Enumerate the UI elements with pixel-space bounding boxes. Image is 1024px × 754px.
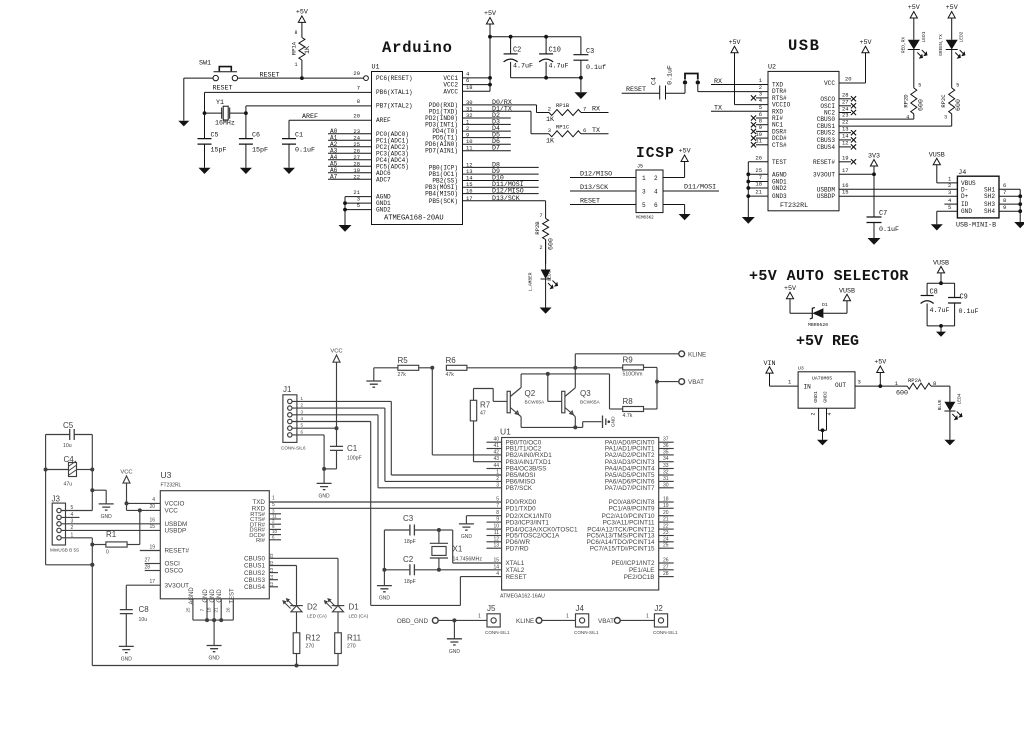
junction R5/R6 to U1 PB2 [430,366,501,455]
svg-text:15: 15 [842,189,849,196]
wire U2 CBUS1 to RP2C [839,119,952,127]
svg-text:LED2: LED2 [959,31,965,42]
svg-text:9: 9 [1003,204,1006,211]
svg-text:PB5(SCK): PB5(SCK) [429,198,458,205]
svg-text:1: 1 [566,614,569,620]
svg-text:10u: 10u [63,443,72,449]
svg-text:AREF: AREF [302,113,318,121]
wire OBD_GND to ground [453,620,455,638]
svg-text:PB6(XTAL1): PB6(XTAL1) [376,89,413,96]
power VIN [763,360,798,386]
U2 right pin labels [813,80,835,200]
wire U3 RESET# stub [140,550,161,552]
jumper pads (reset jumper) [666,74,701,94]
svg-text:RX: RX [714,78,722,86]
U1 left pin numbers [493,437,499,577]
wire +5V cap rail top [490,35,581,39]
svg-text:LED1: LED1 [921,31,927,42]
svg-text:CBUS4: CBUS4 [817,144,836,151]
svg-text:1K: 1K [546,137,554,145]
capacitor C3 18pF [384,514,441,545]
wire RX to U2 TXD [711,77,768,86]
wires U2 TEST/AGND/GND to ground [746,154,768,217]
power +5V (U1 VCC rail) [484,10,496,91]
wire R8 to Q2 collector rail [610,374,623,409]
wire ICSP pin6 to ground [663,205,685,215]
svg-text:J4: J4 [576,604,585,613]
wire R7 top to Q2 base [474,389,508,402]
svg-text:2: 2 [496,476,499,482]
wire U1 PD2 to ground [466,516,501,524]
power +5V (regulator out) [874,359,886,387]
svg-text:D+: D+ [961,193,969,200]
svg-text:VCC: VCC [120,469,132,475]
led LED2 GREEN,TX [938,31,965,88]
svg-text:VCC: VCC [165,508,179,515]
svg-text:270: 270 [347,643,356,649]
svg-text:RESET#: RESET# [165,548,190,555]
svg-text:26: 26 [663,558,669,564]
svg-text:GND3: GND3 [772,193,787,200]
svg-text:16MHz: 16MHz [215,120,235,127]
svg-text:1: 1 [642,175,646,182]
svg-text:28: 28 [842,92,849,99]
wire U3 OSCI stub [145,563,161,565]
svg-text:2: 2 [654,175,658,182]
power VCC (J1) [330,349,342,447]
resistor R5 27k [374,356,433,378]
svg-text:TEST: TEST [772,159,787,166]
svg-text:RED,RX: RED,RX [900,37,906,54]
svg-text:15pF: 15pF [211,147,227,155]
ground (J4 shield) [1014,222,1024,228]
wire XTAL1 (U1 pin7) [203,85,372,139]
svg-text:RESET#: RESET# [813,159,835,166]
svg-text:R1: R1 [106,530,117,539]
ground (crystal) [377,586,392,592]
U1 right pin labels [587,439,655,580]
wire D12/MISO to ICSP pin1 [570,171,636,179]
svg-text:AGND: AGND [772,171,787,178]
svg-text:CBUS0: CBUS0 [817,116,836,123]
svg-text:CONN-SIL1: CONN-SIL1 [574,630,599,635]
svg-text:15pF: 15pF [252,147,268,155]
svg-text:VCCIO: VCCIO [165,501,185,508]
svg-text:1: 1 [646,614,649,620]
wire U3 3V3OUT to C8 [126,585,160,609]
capacitor C3 0.1uF [573,37,606,78]
diode D1 MBR0520 [808,302,828,328]
led LED3 L_AMBER [528,240,558,308]
J4 pin numbers left [948,182,952,211]
wire J4 ID stub [944,203,957,205]
svg-text:BLUE: BLUE [937,399,943,410]
svg-text:25: 25 [755,167,762,174]
svg-text:19: 19 [663,503,669,509]
svg-text:Arduino: Arduino [382,39,453,57]
crystal X1 14.7456MHz [430,530,483,570]
wire RESET net to U1 pin29 [238,70,369,81]
wire U3 CBUS1 to D2 [269,560,297,605]
svg-text:LED3: LED3 [547,270,553,281]
wire J1 pin3 to U1 PB7 [292,415,502,488]
svg-text:28: 28 [144,565,150,571]
svg-text:PB7(XTAL2): PB7(XTAL2) [376,102,413,109]
svg-text:+5V REG: +5V REG [796,333,859,350]
wire left rail (J3 section) [44,435,95,567]
svg-text:19: 19 [149,545,155,551]
svg-text:OSCO: OSCO [165,568,184,575]
svg-text:8: 8 [357,98,360,105]
ground (J3 area) [99,504,114,510]
wires U3 bottom pins to ground [186,599,234,646]
svg-text:J1: J1 [283,385,292,394]
svg-text:42: 42 [493,449,499,455]
ground (U3) [207,646,222,652]
svg-text:4: 4 [152,497,155,503]
svg-text:GND: GND [210,589,216,603]
power +5V (U2 VCCIO) [728,39,768,105]
svg-text:VCC: VCC [330,349,342,355]
svg-text:AREF: AREF [376,117,391,124]
svg-text:47k: 47k [446,372,455,378]
svg-text:RP2D: RP2D [902,94,909,108]
svg-text:D1: D1 [349,603,360,612]
svg-text:C5: C5 [63,421,74,430]
ground (C5) [199,168,211,174]
svg-text:GND: GND [449,649,461,655]
svg-text:7: 7 [496,503,499,509]
svg-text:29: 29 [353,70,360,77]
svg-text:17: 17 [842,167,849,174]
ground (C6) [240,168,252,174]
connector J1 CONN-SIL6 [281,385,306,451]
svg-text:C2: C2 [513,47,521,55]
svg-text:MBR0520: MBR0520 [808,322,828,328]
wire VCCIO (U3 pin4) [127,497,161,503]
U2 unconnected left stubs [751,91,768,148]
svg-text:1: 1 [272,496,275,502]
svg-text:GND: GND [203,589,209,603]
U2 left pin labels [772,82,791,201]
wire KLINE net [575,354,679,368]
wire to chassis ground (J3) [92,490,106,504]
wire U2 CBUS0 to RP2D [839,112,914,120]
svg-text:GREEN,TX: GREEN,TX [938,34,944,56]
wire TX to U2 RXD [711,104,768,113]
ic U2 FT232RL box [768,64,839,211]
ic U3 UA78M05 regulator [798,366,855,409]
svg-text:8: 8 [1003,197,1006,204]
svg-text:6: 6 [583,127,586,134]
svg-text:2: 2 [539,245,542,251]
svg-text:PC3/A11/PCINT11: PC3/A11/PCINT11 [603,519,655,526]
svg-text:GND: GND [209,656,221,662]
svg-text:IN: IN [804,384,812,391]
wire C2 rail to U1 XTAL2 [439,569,502,571]
transistor Q2 BCW65A [507,374,545,428]
svg-text:U1: U1 [500,427,511,437]
wire SW1 to ground [184,78,213,121]
terminal KLINE (bottom) [516,614,576,626]
svg-text:SH3: SH3 [984,201,995,208]
svg-text:600: 600 [896,390,908,398]
svg-text:PE2/OC1B: PE2/OC1B [624,574,655,581]
svg-text:AVCC: AVCC [443,88,458,95]
wire C3 rail to U1 XTAL1 [439,530,502,563]
svg-text:14: 14 [269,574,274,580]
svg-text:11: 11 [755,138,762,145]
svg-text:GND: GND [319,493,331,499]
svg-text:GND: GND [379,596,391,602]
wire J3 pin5 [61,510,92,512]
svg-text:GND2: GND2 [823,391,829,403]
svg-text:27: 27 [144,558,150,564]
svg-text:USB: USB [788,37,820,55]
svg-text:26: 26 [226,607,231,613]
svg-text:C4: C4 [651,77,658,85]
wire J1 pin5 to VCC [292,427,337,429]
svg-text:J5: J5 [487,604,496,613]
svg-text:VBAT: VBAT [688,379,704,386]
power VUSB (J4) [929,152,958,183]
ground (SW1) [178,121,189,127]
svg-text:Y1: Y1 [216,99,224,106]
wire U2 USBDM to J4 [839,182,957,190]
svg-text:4.7uF: 4.7uF [513,63,533,71]
svg-text:0.1uf: 0.1uf [586,64,606,72]
power +5V (ICSP pin2) [663,148,691,178]
svg-text:AGND: AGND [189,587,195,605]
svg-text:7: 7 [539,213,542,219]
svg-text:1: 1 [294,62,297,68]
U3 right pin labels [244,499,266,591]
U3 left pin labels [165,501,190,590]
resistor RP2A 600 [895,377,950,402]
svg-text:KLINE: KLINE [516,618,534,625]
power VCC (U3) [120,469,132,510]
U3 pin number labels left [144,518,155,586]
capacitor C2 18pF [382,555,441,585]
svg-text:31: 31 [663,476,669,482]
svg-text:21: 21 [214,607,219,613]
svg-text:600: 600 [955,99,962,111]
wire J3 pin4 stub [61,516,79,518]
capacitor C4 0.1uF [651,65,674,99]
svg-text:GND2: GND2 [772,185,787,192]
svg-text:CBUS3: CBUS3 [817,137,836,144]
ground (LED4) [944,440,955,446]
svg-text:PD7/RD: PD7/RD [506,545,530,552]
capacitor C8 4.7uF [921,289,950,316]
ic U1 ATMEGA168-20AU box [372,64,463,225]
svg-text:14.7456MHz: 14.7456MHz [453,557,483,563]
svg-text:CBUS2: CBUS2 [817,130,836,137]
svg-text:SW1: SW1 [199,60,211,68]
svg-text:1K: 1K [304,46,311,54]
svg-text:GND2: GND2 [376,207,391,214]
svg-text:30: 30 [663,482,669,488]
svg-text:RESET: RESET [213,85,233,93]
svg-text:21: 21 [755,189,762,196]
power VUSB (C8/C9) [933,260,949,286]
svg-text:RP2C: RP2C [940,94,947,108]
ground (OBD_GND) [447,639,462,645]
svg-text:4.7uF: 4.7uF [549,63,569,71]
svg-text:CBUS4: CBUS4 [244,584,265,591]
svg-text:4: 4 [827,412,833,415]
svg-text:5: 5 [956,83,959,89]
svg-text:25: 25 [663,543,669,549]
svg-text:28: 28 [663,571,669,577]
ic U3 FT232RL box [160,470,269,599]
wire RESET to ICSP pin5 [570,198,636,206]
wire J1 pin6 to GND [292,435,326,471]
svg-text:RI#: RI# [256,538,266,544]
svg-text:R6: R6 [446,356,457,365]
svg-text:CONN-SIL1: CONN-SIL1 [653,630,678,635]
svg-text:GND: GND [101,514,113,520]
svg-text:GND1: GND1 [813,391,819,403]
wires J4 shield SH1-SH4 [999,182,1022,222]
svg-text:RESET: RESET [506,574,527,581]
resistor RP2B 600 (LED3) [534,201,555,264]
svg-text:3V3OUT: 3V3OUT [813,171,835,178]
svg-text:22: 22 [842,119,849,126]
svg-text:D1: D1 [822,302,828,308]
wire VCC (U3 pin20) [127,504,161,510]
power +5V (LED1) [908,4,920,40]
power +5V (U2 VCC) [839,39,872,83]
svg-text:CTS#: CTS# [772,142,787,149]
svg-text:10u: 10u [139,617,148,623]
svg-text:20: 20 [663,510,669,516]
resistor RP2C 600 [940,83,962,127]
svg-text:1: 1 [496,470,499,476]
svg-text:R12: R12 [306,633,321,642]
wire crystal left rail [383,530,385,586]
svg-text:2: 2 [811,412,817,415]
svg-text:RP1C: RP1C [556,123,570,130]
wire J3 pin1 to R1 [61,538,94,547]
svg-text:VBAT: VBAT [598,618,614,625]
svg-text:PD1/TXD0: PD1/TXD0 [506,506,537,513]
svg-text:18pF: 18pF [404,579,416,585]
wire U2 3V3OUT [839,167,876,176]
U3 bottom pin labels [189,587,235,605]
wire U3 OUT to +5V [855,379,907,388]
svg-text:14: 14 [842,133,849,140]
wire U3 RXD to U1 PD1 [269,502,501,509]
svg-text:L_AMBER: L_AMBER [528,272,534,291]
resistor R11 270 [335,633,362,666]
svg-text:18: 18 [207,607,212,613]
svg-text:USBDP: USBDP [817,193,836,200]
wire U3 TXD to U1 PD0 [269,496,501,503]
svg-text:TEST: TEST [229,588,235,604]
svg-text:32: 32 [663,470,669,476]
svg-text:600: 600 [548,238,555,250]
capacitor C2 4.7uF [504,37,533,78]
svg-text:0.1uF: 0.1uF [295,147,315,155]
svg-text:GND: GND [611,416,617,427]
wire R5 to ground [373,368,375,381]
svg-text:600: 600 [917,99,924,111]
svg-text:TX: TX [592,127,600,135]
ground (ICSP) [679,214,691,220]
svg-text:RP1B: RP1B [556,102,570,109]
svg-text:23: 23 [269,553,274,559]
svg-text:7: 7 [1003,189,1006,196]
wire C4/C5 right rail to J3 pin5 [90,435,94,511]
svg-text:18: 18 [663,497,669,503]
wire J1 pin2 to U1 PB6 [292,408,502,481]
svg-text:C3: C3 [403,514,414,523]
svg-text:C10: C10 [549,47,561,55]
svg-text:CBUS3: CBUS3 [244,577,265,584]
svg-text:PC6(RESET): PC6(RESET) [376,75,413,82]
svg-text:3: 3 [548,127,551,134]
U1 right pin labels [425,75,458,205]
svg-text:33: 33 [663,463,669,469]
svg-text:5: 5 [948,204,951,211]
connector J3 MiniUSB B 5S [50,495,79,553]
svg-text:OBD_GND: OBD_GND [397,618,429,625]
svg-text:19: 19 [842,155,849,162]
svg-text:12: 12 [269,582,274,588]
wire jumper to U2 DTR# [698,91,768,93]
wires A0-A7 analog nets [328,128,372,181]
svg-text:C1: C1 [295,132,303,140]
wire R6 junction to R9 [575,367,622,369]
svg-text:GND: GND [961,208,972,215]
wire Q2 collector rail [521,372,609,376]
resistor RP1A 1K [291,30,312,78]
svg-text:SH4: SH4 [984,208,995,215]
svg-text:ID: ID [961,201,969,208]
power +5V (LED2) [946,4,958,40]
svg-text:37: 37 [663,437,669,443]
ground (J4 GND) [931,224,943,230]
svg-text:RESET: RESET [580,198,600,206]
svg-text:43: 43 [493,456,499,462]
svg-text:C8: C8 [139,605,150,614]
svg-text:U3: U3 [798,366,804,372]
svg-text:7: 7 [357,85,360,92]
svg-text:3: 3 [759,91,762,98]
svg-text:C1: C1 [347,444,358,453]
svg-text:C6: C6 [252,132,260,140]
svg-text:3V3OUT: 3V3OUT [165,582,190,589]
svg-text:3: 3 [948,189,951,196]
U1 right stubs and pin numbers [659,437,674,577]
svg-text:U2: U2 [768,64,776,72]
svg-text:34: 34 [663,456,669,462]
svg-text:CONN-SIL1: CONN-SIL1 [485,630,510,635]
svg-text:D7: D7 [492,145,500,152]
svg-text:U1: U1 [372,64,380,72]
ground (C1/J1) [317,483,332,489]
svg-text:36: 36 [663,443,669,449]
svg-text:ATMEGA168-20AU: ATMEGA168-20AU [384,215,444,223]
svg-text:0.1uF: 0.1uF [959,308,979,316]
wire emitter rail [521,422,601,430]
svg-text:MCM03K2: MCM03K2 [636,217,654,221]
svg-text:11: 11 [466,145,473,152]
svg-text:D12/MISO: D12/MISO [492,188,524,195]
wire ground rail (bottom left) [90,545,338,668]
svg-text:GND: GND [217,589,223,603]
